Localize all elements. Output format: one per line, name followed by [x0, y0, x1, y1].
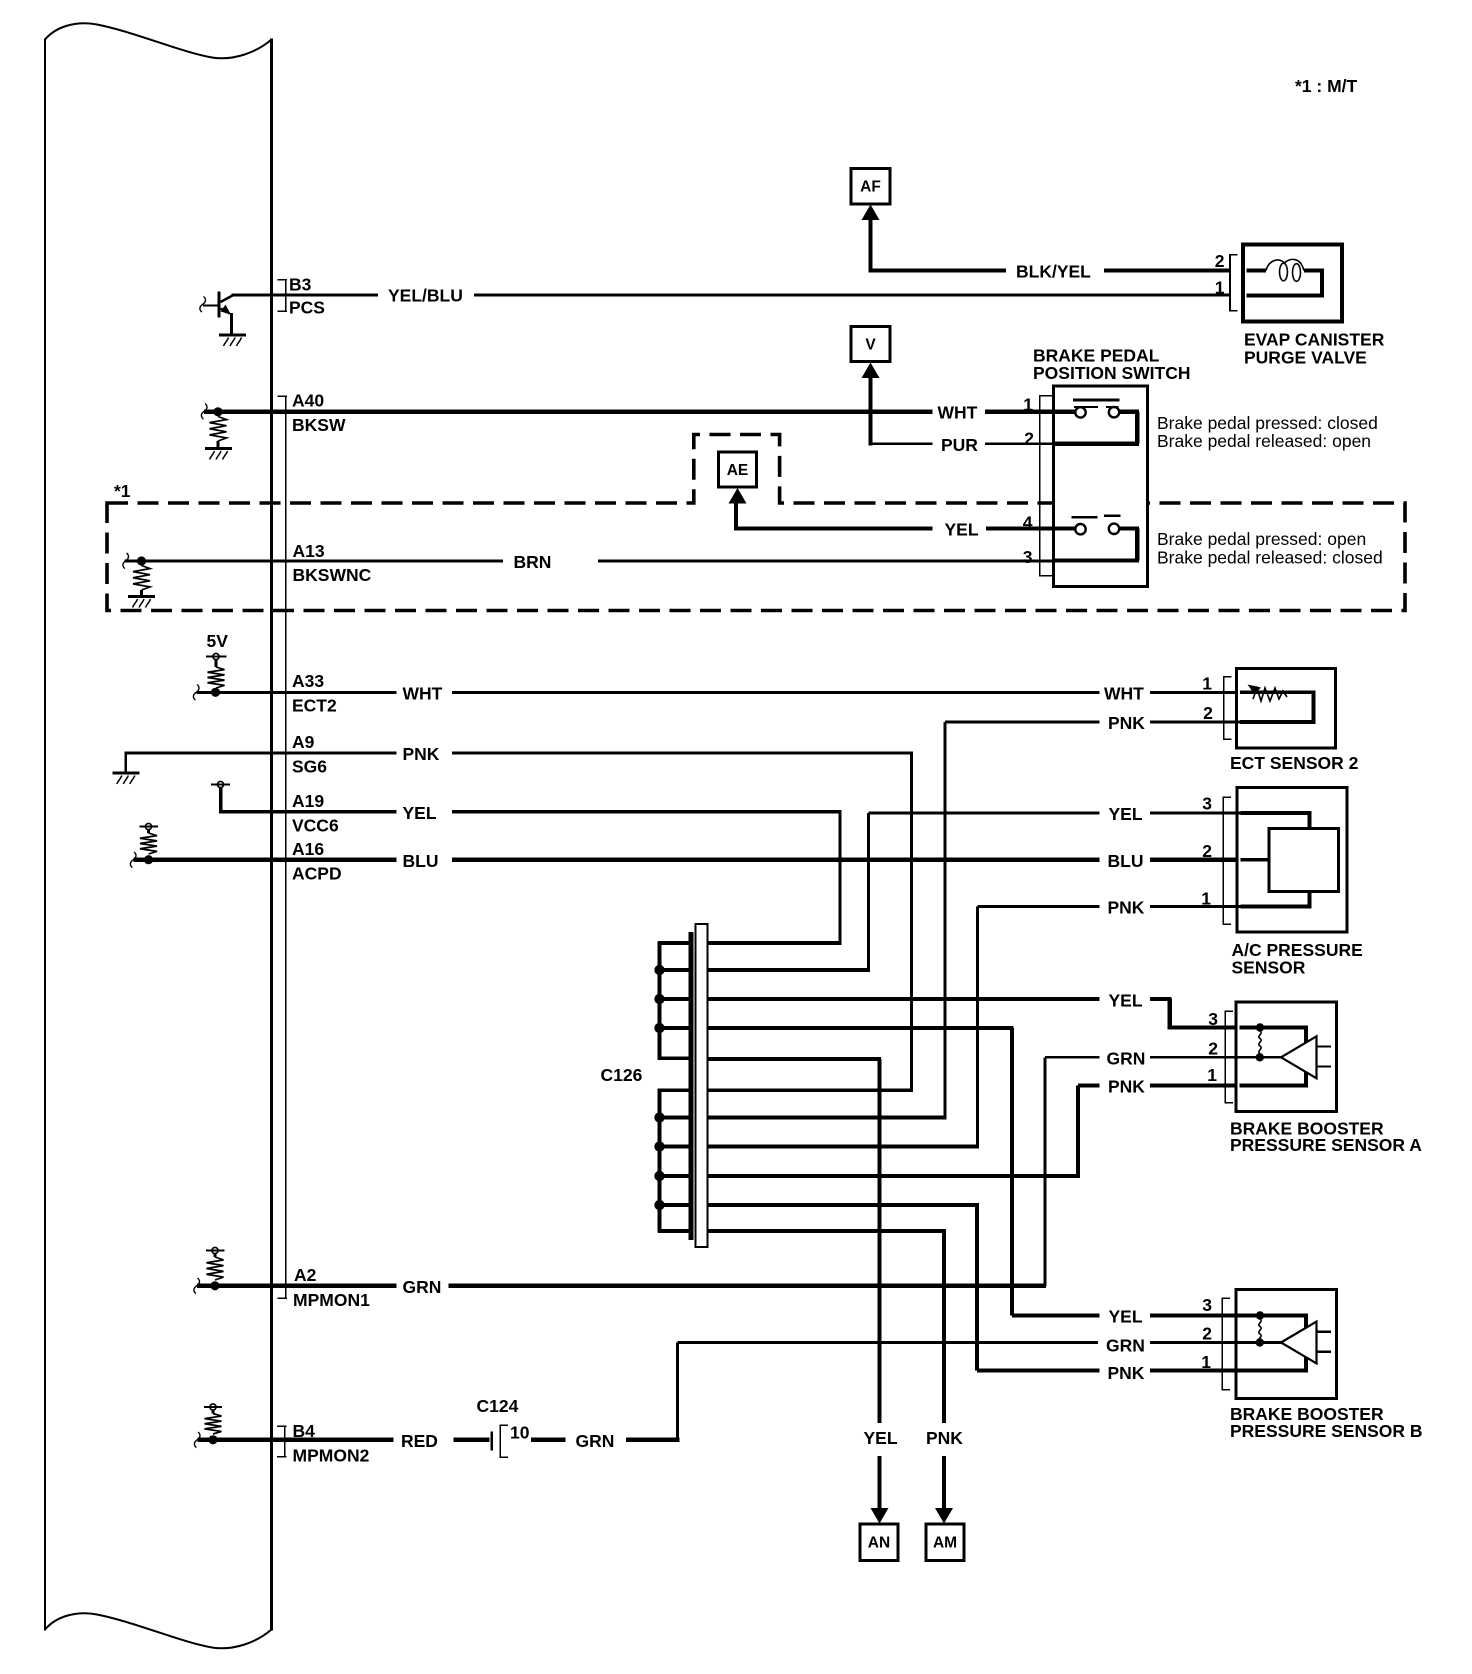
svg-text:B3: B3 — [289, 275, 312, 295]
svg-text:3: 3 — [1202, 1295, 1212, 1315]
C126 output wire level 8 to A/C PNK feed — [708, 1145, 980, 1149]
connector box AN — [860, 1524, 898, 1561]
terminal and resistor at B4 (inside ECM) — [210, 1404, 216, 1410]
pull-up resistor to ground at A40 (inside ECM) — [201, 404, 207, 420]
thermistor inside ECT sensor 2 — [1240, 690, 1316, 694]
connector box AM — [926, 1524, 964, 1561]
svg-text:PNK: PNK — [403, 744, 440, 764]
svg-text:MPMON2: MPMON2 — [293, 1446, 370, 1466]
wire GRN from C124 to booster B pin 2 — [531, 1438, 566, 1442]
vertical YEL feed from A19 down to C126 — [838, 812, 841, 943]
C126 output wire level 7 to ECT PNK feed — [708, 1116, 947, 1120]
ground at A13 resistor — [128, 595, 155, 598]
svg-text:2: 2 — [1202, 841, 1212, 861]
EVAP canister purge valve box — [1243, 245, 1342, 322]
in-line connector C124 pin 10 — [490, 1432, 493, 1451]
vertical PNK feed A/C pin1 down to C126 — [976, 907, 979, 1147]
ground at A40 resistor — [205, 447, 232, 450]
wire PUR from switch pin 2 up to V — [869, 378, 873, 446]
svg-text:3: 3 — [1202, 793, 1212, 813]
svg-text:PNK: PNK — [1108, 713, 1145, 733]
vertical PNK feed down to booster B pin 1 — [975, 1205, 979, 1371]
wire A19 VCC6 YEL to C126 — [219, 810, 397, 813]
svg-text:A40: A40 — [292, 391, 324, 411]
svg-text:GRN: GRN — [1107, 1049, 1146, 1069]
svg-text:PCS: PCS — [289, 298, 325, 318]
5V terminal and pull-up resistor at A33 (inside ECM) — [213, 653, 219, 659]
svg-text:PRESSURE SENSOR B: PRESSURE SENSOR B — [1230, 1421, 1423, 1441]
pin bracket of brake booster sensor B — [1221, 1298, 1223, 1391]
brake booster pressure sensor A box — [1236, 1002, 1337, 1112]
svg-text:Brake pedal pressed: closed: Brake pedal pressed: closed — [1157, 413, 1378, 433]
svg-text:1: 1 — [1207, 1065, 1217, 1085]
svg-text:EVAP CANISTER: EVAP CANISTER — [1244, 330, 1385, 350]
wire A40 BKSW WHT to brake pedal switch pin 1 — [204, 410, 933, 414]
junction dots group 2 — [654, 1112, 664, 1122]
C126 output wire level 1 to A19 YEL feed — [708, 941, 842, 945]
arrow into AN — [871, 1508, 889, 1524]
wire PNK into brake booster sensor A pin 1 — [1078, 1084, 1100, 1088]
svg-text:YEL: YEL — [1109, 804, 1143, 824]
C126 output wire level 5 to AN YEL — [708, 1057, 882, 1061]
svg-text:5V: 5V — [207, 631, 229, 651]
svg-text:AM: AM — [933, 1535, 957, 1552]
arrow into AF — [862, 205, 880, 221]
svg-text:Brake pedal pressed: open: Brake pedal pressed: open — [1157, 529, 1366, 549]
upper switch contacts (pins 1-2) normally open — [1054, 410, 1077, 414]
vertical GRN feed from B4 up to booster B pin 2 — [676, 1343, 679, 1440]
pin bracket A-connector group (A40 down to A2) — [278, 396, 288, 398]
arrow into AM — [935, 1508, 953, 1524]
wire A13 BKSWNC BRN to switch pin 3 — [125, 560, 504, 563]
lower switch contacts (pins 4-3) normally closed — [1054, 526, 1076, 530]
svg-text:SG6: SG6 — [292, 757, 327, 777]
svg-text:AE: AE — [727, 462, 749, 479]
pin bracket of brake booster sensor A — [1224, 1011, 1226, 1104]
vertical YEL wire down to AN connector — [878, 1059, 882, 1423]
vertical YEL feed A/C pin3 down to C126 — [867, 813, 870, 970]
pin bracket of ECT sensor 2 — [1223, 676, 1225, 740]
ECT sensor 2 box — [1237, 669, 1336, 749]
svg-text:WHT: WHT — [403, 684, 443, 704]
svg-text:A33: A33 — [292, 671, 324, 691]
svg-text:2: 2 — [1202, 1323, 1212, 1343]
svg-text:A16: A16 — [292, 839, 324, 859]
wire B4 MPMON2 RED to C124 — [198, 1438, 394, 1442]
switch blade on lower contacts — [1072, 516, 1098, 518]
pin bracket B4 — [277, 1426, 287, 1428]
svg-text:YEL: YEL — [1109, 990, 1143, 1010]
C126 output wire level 4 to brake booster B YEL feed — [708, 1026, 1014, 1030]
svg-text:2: 2 — [1203, 703, 1213, 723]
connector box V — [851, 327, 890, 362]
svg-text:YEL/BLU: YEL/BLU — [388, 286, 463, 306]
inner element of A/C pressure sensor — [1241, 811, 1312, 815]
svg-text:A2: A2 — [294, 1265, 317, 1285]
wire A9 SG6 PNK to C126 — [272, 752, 397, 755]
pin bracket B3 — [278, 279, 288, 281]
C126 left bus group 1 — [658, 941, 662, 1060]
svg-text:1: 1 — [1202, 674, 1212, 694]
wire YEL into booster B pin 3 — [1012, 1314, 1100, 1318]
svg-text:PNK: PNK — [1108, 1363, 1145, 1383]
vertical PNK feed ECT pin2 down to C126 — [943, 722, 946, 1118]
svg-text:BLU: BLU — [403, 851, 439, 871]
svg-text:PURGE VALVE: PURGE VALVE — [1244, 348, 1367, 368]
wire GRN from booster A pin 2 (to A2 MPMON1) — [1045, 1056, 1100, 1059]
wire B3 PCS YEL/BLU to EVAP valve pin 1 — [232, 294, 379, 297]
svg-text:BKSW: BKSW — [292, 415, 346, 435]
switch blade above upper contacts — [1073, 399, 1120, 402]
dashed box *1 (M/T option) with notch around AE connector — [107, 435, 1405, 611]
sensor ground wire A9 SG6 (inside ECM) to ground — [125, 752, 273, 755]
pin bracket of A/C pressure sensor — [1222, 797, 1224, 926]
wire PNK from ECT sensor 2 pin 2 to C126 — [945, 721, 1100, 724]
svg-text:YEL: YEL — [945, 520, 979, 540]
svg-text:C124: C124 — [477, 1396, 519, 1416]
svg-text:MPMON1: MPMON1 — [293, 1290, 370, 1310]
svg-text:10: 10 — [510, 1422, 530, 1442]
svg-text:GRN: GRN — [403, 1277, 442, 1297]
transistor Q1 driver at PCS (inside ECM) — [200, 297, 206, 313]
wire A16 ACPD BLU to A/C pressure sensor pin 2 — [134, 858, 397, 862]
svg-text:Brake pedal released: open: Brake pedal released: open — [1157, 431, 1371, 451]
svg-text:PRESSURE SENSOR A: PRESSURE SENSOR A — [1230, 1135, 1422, 1155]
svg-text:3: 3 — [1023, 547, 1033, 567]
connector box AF — [851, 169, 890, 205]
C126 output wire level 2 to A/C YEL feed — [708, 968, 871, 972]
ECM body right edge — [270, 39, 273, 1631]
brake booster pressure sensor B box — [1236, 1290, 1337, 1399]
C126 output wire level 6 to A9 PNK feed — [708, 1088, 914, 1092]
svg-text:ACPD: ACPD — [292, 864, 342, 884]
svg-text:A13: A13 — [293, 541, 325, 561]
svg-text:V: V — [865, 337, 876, 354]
vertical GRN feed from A2 up to booster A pin 2 — [1044, 1057, 1047, 1286]
pin bracket of EVAP valve — [1229, 254, 1231, 312]
C126 output wire level 9 PNK to booster A pin 1 feed — [708, 1174, 1081, 1178]
svg-text:A9: A9 — [292, 732, 315, 752]
svg-text:2: 2 — [1215, 251, 1225, 271]
svg-text:BKSWNC: BKSWNC — [293, 565, 372, 585]
brake pedal position switch box — [1054, 386, 1148, 587]
wire PNK into booster B pin 1 — [977, 1369, 1100, 1373]
jog down of YEL into booster A pin 3 — [1168, 999, 1172, 1028]
wire YEL from A/C sensor pin 3 to C126 — [869, 811, 1100, 814]
svg-text:POSITION SWITCH: POSITION SWITCH — [1033, 363, 1191, 383]
junction dots group 1 — [654, 965, 664, 975]
svg-text:RED: RED — [401, 1431, 438, 1451]
ECM body left edge (torn outline) — [44, 39, 46, 1631]
svg-text:2: 2 — [1024, 429, 1034, 449]
pin bracket of brake pedal switch — [1039, 395, 1041, 577]
ground at A9 — [112, 772, 139, 775]
svg-text:1: 1 — [1215, 278, 1225, 298]
terminal and resistor at A16 (inside ECM) — [145, 823, 151, 829]
wire A33 ECT2 WHT to ECT sensor 2 pin 1 — [215, 691, 397, 694]
inner circuit of booster sensor B — [1240, 1314, 1309, 1318]
solenoid coil inside EVAP valve — [1247, 269, 1267, 273]
svg-text:ECT2: ECT2 — [292, 696, 337, 716]
A/C pressure sensor box — [1237, 788, 1347, 933]
svg-text:WHT: WHT — [1104, 684, 1144, 704]
svg-text:PNK: PNK — [1108, 1077, 1145, 1097]
svg-text:BRN: BRN — [514, 552, 552, 572]
C126 output wire level 3 YEL to brake booster sensor A pin 3 — [708, 997, 1100, 1001]
svg-text:BLK/YEL: BLK/YEL — [1016, 262, 1091, 282]
svg-text:PNK: PNK — [1108, 898, 1145, 918]
svg-text:GRN: GRN — [1106, 1335, 1145, 1355]
svg-text:*1 : M/T: *1 : M/T — [1295, 76, 1358, 96]
svg-text:ECT SENSOR 2: ECT SENSOR 2 — [1230, 753, 1359, 773]
svg-text:3: 3 — [1208, 1009, 1218, 1029]
svg-text:SENSOR: SENSOR — [1232, 958, 1306, 978]
vertical PNK feed up to booster A pin 1 — [1076, 1086, 1080, 1177]
svg-text:PUR: PUR — [941, 435, 978, 455]
C126 left bus group 2 — [658, 1089, 662, 1233]
vertical PNK wire down to AM connector — [942, 1231, 946, 1423]
svg-text:AF: AF — [860, 179, 881, 196]
svg-text:BLU: BLU — [1108, 851, 1144, 871]
ECM body wavy bottom edge — [45, 1613, 272, 1648]
vertical PNK feed from A9 down to C126 — [910, 753, 913, 1090]
svg-text:Brake pedal released: closed: Brake pedal released: closed — [1157, 548, 1383, 568]
wire A2 MPMON1 GRN to brake booster sensor A pin 2 — [197, 1284, 397, 1288]
svg-text:YEL: YEL — [864, 1428, 898, 1448]
C126 output wire level 10 to booster B PNK feed — [708, 1203, 980, 1207]
svg-text:VCC6: VCC6 — [292, 816, 339, 836]
wire YEL from switch pin 4 to AE — [734, 503, 738, 531]
5V terminal at A19 (inside ECM) — [217, 781, 223, 787]
svg-text:YEL: YEL — [403, 803, 437, 823]
svg-text:C126: C126 — [601, 1065, 643, 1085]
arrow into V — [862, 363, 880, 379]
ground at transistor emitter — [219, 334, 246, 337]
svg-text:2: 2 — [1208, 1039, 1218, 1059]
vertical YEL feed down to booster B pin 3 — [1010, 1028, 1014, 1316]
svg-text:YEL: YEL — [1109, 1307, 1143, 1327]
svg-text:AN: AN — [868, 1535, 890, 1552]
svg-text:WHT: WHT — [938, 403, 978, 423]
svg-text:A19: A19 — [292, 791, 324, 811]
terminal and resistor at A2 (inside ECM) — [212, 1247, 218, 1253]
arrow into AE — [729, 488, 747, 504]
svg-text:*1: *1 — [114, 481, 131, 501]
svg-text:1: 1 — [1023, 395, 1033, 415]
svg-text:PNK: PNK — [926, 1428, 963, 1448]
pull-up resistor to ground at A13 (inside ECM) — [123, 553, 129, 569]
connector C126 body — [696, 924, 708, 1247]
ECM body wavy top edge — [45, 23, 272, 58]
inner circuit of booster sensor A — [1240, 1026, 1309, 1030]
C126 output wire level 11 to AM PNK — [708, 1229, 946, 1233]
connector box AE — [719, 452, 757, 487]
wire GRN from B4 into booster B pin 2 — [678, 1341, 1099, 1344]
svg-text:GRN: GRN — [576, 1431, 615, 1451]
wire PNK from A/C sensor pin 1 to C126 — [978, 905, 1100, 908]
wire BLK/YEL from EVAP pin 2 to AF — [868, 219, 872, 273]
